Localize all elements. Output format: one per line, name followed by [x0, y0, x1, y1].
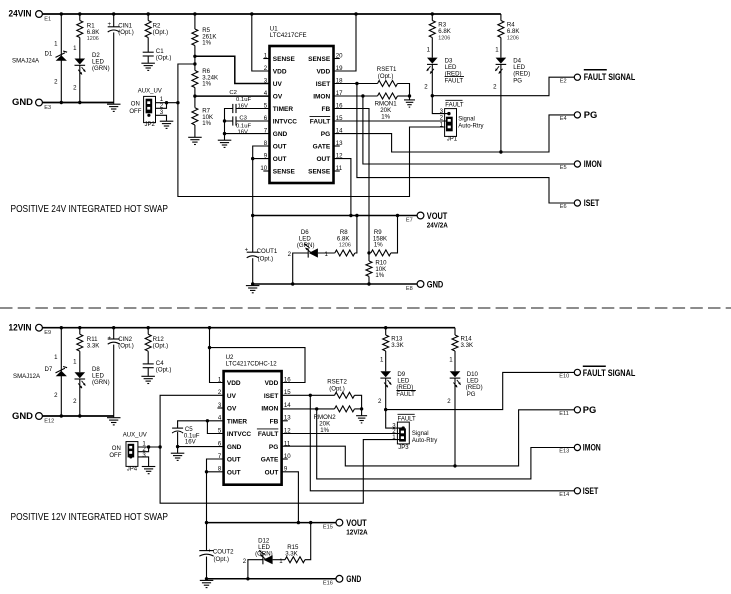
svg-text:POSITIVE 12V INTEGRATED HOT SW: POSITIVE 12V INTEGRATED HOT SWAP	[11, 512, 169, 523]
svg-text:E7: E7	[406, 217, 413, 223]
junction dot R2 top	[147, 12, 150, 15]
junction dot UV at JP4	[158, 445, 161, 448]
svg-text:TIMER: TIMER	[273, 106, 294, 113]
svg-text:IMON: IMON	[584, 159, 602, 169]
junction dot IMON	[361, 94, 364, 97]
terminal E2 FAULT SIGNAL	[574, 74, 580, 80]
svg-text:JP1: JP1	[447, 137, 458, 143]
wire FB pin16 to divider	[334, 109, 370, 253]
resistor R5 261K 1%	[194, 14, 196, 29]
svg-text:GND: GND	[427, 279, 444, 289]
terminal E9	[36, 324, 43, 331]
junction dot D12 bottom	[246, 577, 249, 580]
svg-text:E2: E2	[560, 78, 567, 84]
svg-text:5: 5	[218, 427, 222, 434]
junction dot R15 on VOUT rail bottom	[309, 521, 312, 524]
svg-text:ISET: ISET	[584, 198, 600, 208]
svg-text:6: 6	[218, 440, 222, 447]
JP3 pin3 contact dot	[402, 426, 405, 429]
svg-text:RSET2: RSET2	[327, 378, 347, 385]
LED D6 (GRN)	[293, 253, 308, 284]
resistor R12 (Opt.)	[147, 328, 149, 335]
pin13 GATE stub	[334, 145, 340, 147]
capacitor C3 0.1uF 16V	[236, 120, 269, 122]
svg-text:GATE: GATE	[313, 144, 331, 151]
svg-text:E10: E10	[559, 374, 569, 380]
junction dot UV node	[193, 55, 196, 58]
wire GND pin6	[178, 446, 224, 448]
terminal E4 PG	[574, 112, 580, 118]
wire INTVCC pin5	[207, 421, 223, 434]
resistor R7 10K 1%	[192, 108, 198, 125]
svg-text:Auto-Rtry: Auto-Rtry	[412, 438, 437, 444]
svg-text:FAULT: FAULT	[445, 103, 464, 109]
wire UV node to pin3	[195, 56, 270, 83]
svg-text:COUT2: COUT2	[213, 549, 234, 556]
svg-text:ISET: ISET	[264, 393, 278, 400]
svg-text:FAULT: FAULT	[258, 431, 278, 438]
svg-text:+: +	[208, 547, 212, 554]
svg-text:PG: PG	[584, 110, 598, 120]
svg-text:0.1uF: 0.1uF	[236, 97, 251, 103]
diode D1 SMAJ24A	[60, 14, 62, 103]
junction dot R13 top	[384, 326, 387, 329]
wire FAULT signal to E2	[432, 77, 574, 96]
LED D2 (GRN)	[75, 59, 86, 65]
svg-text:JP4: JP4	[127, 467, 138, 473]
svg-text:SMAJ24A: SMAJ24A	[12, 57, 40, 64]
junction dot D7 bottom	[60, 414, 63, 417]
wire PG pin11	[282, 410, 574, 466]
JP4 pin3 contact dot	[129, 455, 132, 458]
junction dot D6 bottom	[291, 282, 294, 285]
junction dot GND pin wire	[223, 132, 226, 135]
junction dot D1 top	[60, 12, 63, 15]
svg-text:E9: E9	[44, 330, 51, 336]
LED D10 (RED) PG	[450, 371, 461, 377]
pin10 GATE stub	[282, 458, 288, 460]
wire JP4 pin1	[138, 446, 160, 448]
resistor R4 6.8K 1206	[500, 14, 502, 21]
ground at C2/C3/pin7	[218, 140, 232, 147]
junction dot OUT drop on VOUT rail bottom	[205, 521, 208, 524]
wire TIMER pin4 to C5	[178, 421, 224, 428]
junction dot R9 on VOUT rail	[396, 214, 399, 217]
svg-text:OFF: OFF	[129, 109, 141, 115]
svg-text:ON: ON	[112, 446, 121, 452]
svg-text:16V: 16V	[185, 439, 197, 446]
svg-text:OUT: OUT	[316, 156, 330, 163]
IC U2 LTC4217CDHC-12	[224, 371, 282, 485]
svg-text:12V/2A: 12V/2A	[346, 528, 368, 537]
junction dot D8 bottom	[78, 414, 81, 417]
svg-text:C2: C2	[229, 90, 237, 96]
terminal E1	[36, 11, 43, 18]
wire JP2 pin3	[156, 115, 167, 121]
terminal E11 PG	[574, 407, 580, 413]
svg-text:1%: 1%	[375, 272, 384, 279]
junction dot TIMER/INTVCC	[206, 419, 209, 422]
wire pin7 GND	[225, 121, 270, 140]
svg-text:(Opt.): (Opt.)	[378, 73, 394, 80]
svg-text:10: 10	[260, 165, 267, 172]
svg-text:3.3K: 3.3K	[461, 342, 474, 349]
JP1 pin3 contact dot	[447, 112, 450, 115]
resistor R13 3.3K	[385, 328, 387, 335]
svg-text:(Opt.): (Opt.)	[153, 343, 169, 350]
svg-text:AUX_UV: AUX_UV	[123, 433, 147, 439]
wire JP4 pin2	[138, 447, 149, 452]
resistor RSET1 (Opt.)	[378, 81, 398, 87]
wire GND rail bottom output	[207, 578, 337, 580]
svg-text:E15: E15	[323, 524, 333, 530]
svg-text:E13: E13	[559, 449, 569, 455]
resistor R15 3.3K	[273, 559, 285, 561]
resistor R10 10K 1%	[368, 253, 370, 261]
ground at RMON1	[409, 96, 411, 100]
svg-text:1%: 1%	[374, 242, 383, 249]
svg-text:1206: 1206	[438, 35, 450, 41]
svg-text:(Opt.): (Opt.)	[214, 556, 230, 563]
svg-text:2: 2	[218, 389, 222, 396]
ground at COUT1	[246, 286, 260, 293]
svg-text:(Opt.): (Opt.)	[156, 55, 172, 62]
junction dot C5/GND	[176, 445, 179, 448]
junction dot R12 top	[147, 326, 150, 329]
resistor R14 3.3K	[454, 328, 456, 335]
wire JP4 pin3	[138, 457, 149, 466]
resistor RSET2 (Opt.)	[335, 392, 355, 398]
svg-text:1%: 1%	[202, 81, 211, 88]
svg-text:24VIN: 24VIN	[9, 9, 32, 19]
pin11 stub	[334, 170, 340, 172]
terminal E6 ISET	[574, 200, 580, 206]
svg-text:7: 7	[218, 453, 222, 460]
svg-text:(GRN): (GRN)	[92, 65, 110, 72]
svg-text:OUT: OUT	[265, 469, 279, 476]
svg-text:1%: 1%	[202, 120, 211, 127]
resistor R2 (Opt.)	[147, 14, 149, 21]
terminal E15 VOUT	[336, 519, 343, 526]
junction dot R3 top	[431, 12, 434, 15]
junction dot D10 bottom on PG line	[453, 464, 456, 467]
svg-text:FAULT SIGNAL: FAULT SIGNAL	[583, 368, 636, 378]
junction dot OUT drop on VOUT rail	[251, 214, 254, 217]
LED D4 (RED) PG	[496, 58, 507, 64]
svg-text:IMON: IMON	[313, 94, 330, 101]
terminal E7 VOUT	[417, 212, 424, 219]
terminal E10 FAULT SIGNAL	[574, 369, 580, 375]
wire IMON to E5	[363, 96, 574, 164]
svg-text:E5: E5	[560, 165, 567, 171]
wire GND rail output	[253, 283, 417, 285]
terminal E5 IMON	[574, 161, 580, 167]
svg-text:6.8K: 6.8K	[438, 28, 451, 35]
svg-text:(Opt.): (Opt.)	[118, 343, 134, 350]
svg-text:FB: FB	[270, 418, 279, 425]
wire pin12 OUT to VOUT rail	[334, 159, 351, 216]
wire ISET pin18	[334, 83, 378, 85]
svg-text:GATE: GATE	[261, 457, 279, 464]
wire GND rail left	[42, 102, 113, 104]
wire UV node to JP2 and JP1 auto-retry	[178, 64, 445, 197]
junction dot VDD branch	[208, 346, 211, 349]
svg-text:OV: OV	[273, 94, 283, 101]
svg-text:E12: E12	[44, 419, 54, 425]
resistor R11 3.3K	[79, 328, 81, 335]
junction dot JP4 pin1-pin2	[147, 445, 150, 448]
svg-text:Signal: Signal	[412, 431, 429, 437]
junction dot COUT1 bottom	[251, 282, 254, 285]
svg-text:TIMER: TIMER	[227, 418, 248, 425]
IC U1 LTC4217CFE	[270, 46, 334, 183]
svg-text:E14: E14	[559, 492, 569, 498]
svg-text:16: 16	[284, 376, 291, 383]
svg-text:3.3K: 3.3K	[87, 343, 100, 350]
svg-text:GND: GND	[346, 574, 361, 584]
svg-text:PG: PG	[321, 131, 330, 138]
svg-text:IMON: IMON	[261, 406, 278, 413]
svg-text:VDD: VDD	[227, 380, 241, 387]
resistor R8 6.8K 1206	[318, 252, 335, 254]
svg-text:D1: D1	[45, 51, 53, 58]
svg-text:E8: E8	[406, 286, 413, 292]
svg-text:3.3K: 3.3K	[391, 342, 404, 349]
svg-text:PG: PG	[583, 405, 597, 415]
svg-text:16V: 16V	[238, 103, 249, 109]
junction dot CIN2 top	[112, 326, 115, 329]
junction dot C3 left	[223, 119, 226, 122]
svg-text:FAULT: FAULT	[310, 119, 330, 126]
svg-text:FB: FB	[322, 106, 331, 113]
capacitor C2 0.1uF 16V	[236, 108, 269, 110]
wire VOUT rail	[253, 215, 417, 217]
junction dot OV node	[193, 94, 196, 97]
wire PG pin14	[334, 115, 575, 152]
svg-text:ISET: ISET	[583, 486, 599, 496]
pin13 FB stub	[282, 420, 288, 422]
junction dot D2 bottom	[78, 101, 81, 104]
svg-text:E16: E16	[323, 581, 333, 587]
pin20 stub	[334, 58, 340, 60]
svg-text:3.3K: 3.3K	[285, 551, 298, 558]
wire ISET pin15	[282, 394, 335, 396]
svg-text:(Opt.): (Opt.)	[258, 255, 274, 262]
junction dot JP2 to UV line	[176, 101, 179, 104]
svg-text:INTVCC: INTVCC	[227, 431, 252, 438]
junction dot RSET1/RMON1	[408, 94, 411, 97]
capacitor CIN1 (Opt.)	[113, 14, 115, 27]
ground at C5	[177, 447, 179, 453]
junction dot VDD right	[354, 12, 357, 15]
junction dot RSET2/RMON2	[360, 407, 363, 410]
svg-text:COUT1: COUT1	[257, 248, 278, 255]
svg-text:E6: E6	[560, 204, 567, 210]
pin3 OV stub	[217, 407, 223, 409]
svg-text:UV: UV	[227, 393, 237, 400]
svg-text:1206: 1206	[87, 36, 99, 42]
svg-text:PG: PG	[467, 391, 476, 398]
svg-text:1206: 1206	[507, 35, 519, 41]
wire VDD left drop	[252, 14, 270, 71]
wire U2 VDD drop	[210, 328, 224, 383]
svg-text:E1: E1	[44, 17, 51, 23]
junction dot R8 on VOUT rail	[355, 214, 358, 217]
wire FAULT pin15 to JP1	[334, 120, 447, 122]
junction dot IMON bottom	[315, 407, 318, 410]
svg-text:3: 3	[218, 402, 222, 409]
svg-text:24V/2A: 24V/2A	[427, 221, 449, 230]
svg-text:VOUT: VOUT	[346, 518, 367, 528]
resistor R9 158K 1%	[371, 250, 391, 256]
svg-text:OUT: OUT	[273, 156, 287, 163]
junction dot D3 bottom	[431, 94, 434, 97]
junction dot R1 top	[78, 12, 81, 15]
svg-text:LTC4217CDHC-12: LTC4217CDHC-12	[226, 360, 278, 367]
svg-text:PG: PG	[513, 77, 522, 84]
ground at CIN1	[113, 103, 115, 104]
ground at JP4	[142, 467, 156, 474]
svg-text:VOUT: VOUT	[427, 211, 448, 221]
wire OV node to pin4	[195, 95, 270, 97]
svg-text:VDD: VDD	[265, 380, 279, 387]
svg-text:OUT: OUT	[273, 144, 287, 151]
junction dot VDD drop top	[208, 326, 211, 329]
svg-text:1%: 1%	[202, 40, 211, 47]
junction dot R10 bottom	[367, 282, 370, 285]
terminal E16 GND	[336, 575, 343, 582]
svg-text:AUX_UV: AUX_UV	[138, 89, 162, 95]
junction dot D1 bottom	[60, 101, 63, 104]
capacitor CIN2 (Opt.)	[113, 328, 115, 339]
svg-text:C3: C3	[239, 116, 247, 122]
capacitor C4 (Opt.)	[143, 364, 154, 368]
svg-text:INTVCC: INTVCC	[273, 119, 298, 126]
svg-text:JP3: JP3	[398, 445, 409, 451]
svg-text:FAULT SIGNAL: FAULT SIGNAL	[584, 72, 636, 82]
svg-text:(GRN): (GRN)	[297, 242, 315, 249]
svg-text:OUT: OUT	[227, 469, 241, 476]
wire pins 8-9 OUT to VOUT rail	[253, 146, 270, 216]
wire GND rail left bottom	[42, 415, 113, 417]
svg-text:Signal: Signal	[458, 116, 475, 122]
ground at CIN2	[113, 416, 115, 417]
svg-text:GND: GND	[227, 444, 242, 451]
svg-text:1206: 1206	[339, 243, 351, 249]
svg-text:(Opt.): (Opt.)	[156, 366, 172, 373]
svg-text:VDD: VDD	[316, 69, 330, 76]
svg-text:(RED): (RED)	[513, 70, 530, 77]
resistor R6 3.24K 1%	[192, 70, 198, 87]
svg-text:3: 3	[160, 109, 164, 116]
terminal E8 GND	[417, 281, 424, 288]
wire VOUT rail bottom	[207, 522, 337, 524]
ground at C4	[141, 376, 155, 383]
wire JP2 pin2	[156, 103, 167, 109]
wire UV pin2 to JP4/JP3	[160, 395, 401, 503]
LED D8 (GRN)	[75, 372, 86, 378]
svg-text:FAULT: FAULT	[396, 391, 415, 398]
pin1 stub	[263, 58, 269, 60]
svg-text:1%: 1%	[320, 427, 329, 434]
svg-text:Auto-Rtry: Auto-Rtry	[458, 124, 483, 130]
svg-text:12VIN: 12VIN	[9, 322, 32, 332]
svg-text:UV: UV	[273, 81, 283, 88]
junction dot VDD left	[250, 12, 253, 15]
junction dot D9 bottom	[384, 408, 387, 411]
svg-text:(GRN): (GRN)	[255, 551, 273, 558]
wire pins 7-8 OUT to VOUT rail	[207, 459, 224, 523]
terminal E12	[36, 413, 43, 420]
capacitor COUT1 (Opt.)	[252, 216, 254, 253]
svg-text:JP2: JP2	[145, 122, 156, 128]
svg-text:14: 14	[284, 402, 291, 409]
wire ISET to E14	[310, 395, 574, 491]
terminal E3	[36, 99, 43, 106]
svg-text:(Opt.): (Opt.)	[329, 385, 345, 392]
svg-text:RSET1: RSET1	[377, 66, 397, 73]
wire D9 node to JP3 pin3	[386, 410, 404, 429]
pin10 stub	[263, 170, 269, 172]
junction dot pin9 OUT	[251, 157, 254, 160]
wire IMON pin14	[282, 408, 335, 410]
wire 12V top rail	[42, 327, 455, 329]
svg-text:SENSE: SENSE	[308, 56, 331, 63]
ground at C1	[141, 63, 155, 70]
svg-text:FAULT: FAULT	[445, 77, 464, 84]
svg-text:(Opt.): (Opt.)	[153, 29, 169, 36]
svg-text:E4: E4	[560, 116, 567, 122]
wire IMON to E13	[317, 409, 574, 479]
junction dot JP2 pin1-pin2	[165, 101, 168, 104]
wire ISET to E6	[357, 84, 574, 204]
svg-text:GND: GND	[12, 97, 33, 107]
svg-text:POSITIVE 24V INTEGRATED HOT SW: POSITIVE 24V INTEGRATED HOT SWAP	[11, 204, 169, 215]
capacitor C5 0.1uF 16V	[172, 428, 183, 433]
svg-text:1: 1	[218, 376, 222, 383]
svg-text:6.8K: 6.8K	[507, 28, 520, 35]
ground at COUT2	[200, 580, 214, 587]
svg-text:6.8K: 6.8K	[337, 235, 350, 242]
svg-text:VDD: VDD	[273, 69, 287, 76]
junction dot pin12 on VOUT rail	[349, 214, 352, 217]
JP2 pin3 contact dot	[147, 114, 150, 117]
wire FAULT signal to E10	[386, 372, 574, 409]
ground at JP2	[160, 121, 174, 128]
terminal E14 ISET	[574, 488, 580, 494]
svg-text:IMON: IMON	[583, 443, 601, 453]
wire VDD to pin16	[210, 348, 306, 383]
junction dot pin8 OUT	[205, 470, 208, 473]
junction dot D7 top	[60, 326, 63, 329]
ground at RMON2	[361, 409, 363, 416]
svg-text:E11: E11	[559, 411, 569, 417]
svg-text:D7: D7	[45, 366, 53, 373]
svg-text:16V: 16V	[238, 130, 249, 136]
svg-text:+: +	[108, 21, 112, 28]
ground at R7	[188, 137, 202, 144]
svg-text:1%: 1%	[381, 113, 390, 120]
resistor R1 6.8K	[79, 14, 81, 21]
svg-text:(GRN): (GRN)	[92, 379, 110, 386]
junction dot UV-JP2 branch	[193, 62, 196, 65]
capacitor COUT2 (Opt.)	[206, 523, 208, 551]
terminal E13 IMON	[574, 444, 580, 450]
svg-text:OUT: OUT	[227, 457, 241, 464]
junction dot CIN1 top	[112, 12, 115, 15]
resistor RMON1 20K 1%	[378, 93, 398, 99]
junction dot COUT2 bottom	[205, 577, 208, 580]
